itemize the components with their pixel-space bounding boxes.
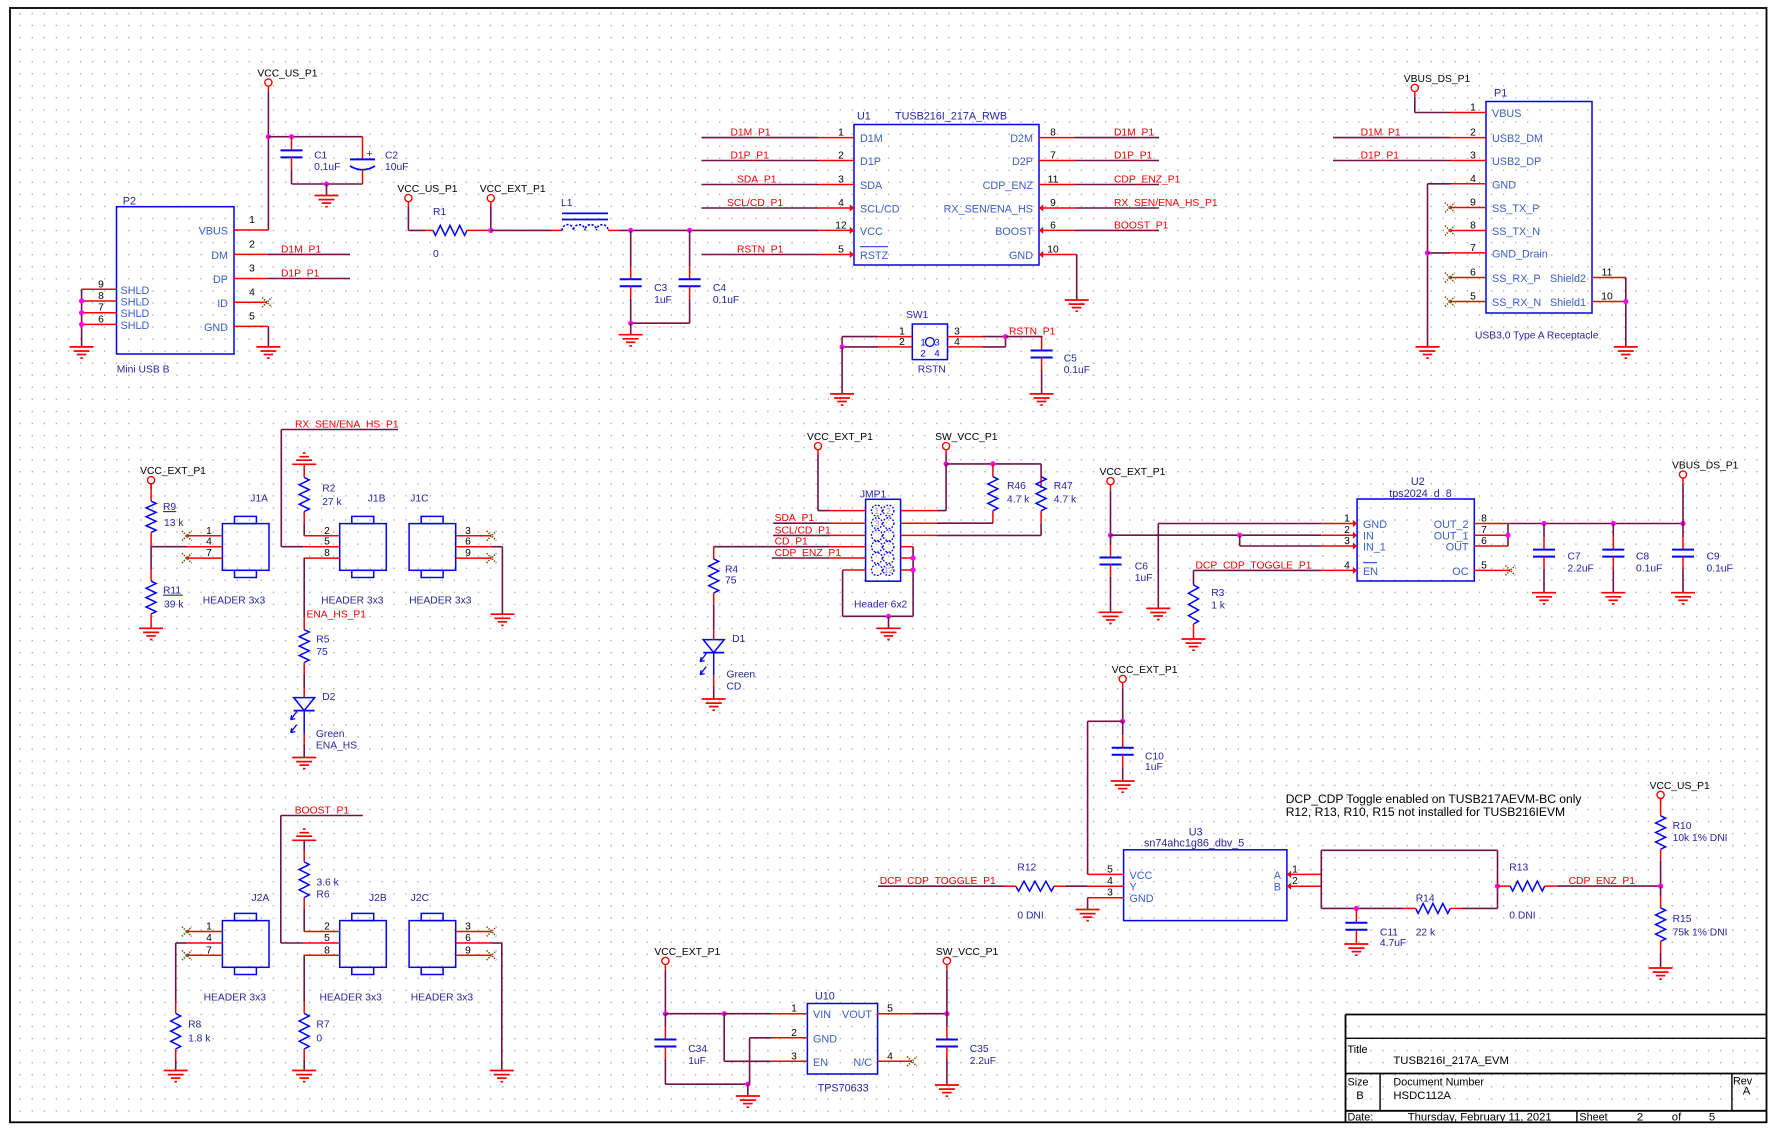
svg-text:SW1: SW1 <box>906 310 929 321</box>
svg-text:VBUS_DS_P1: VBUS_DS_P1 <box>1672 461 1739 472</box>
svg-text:of: of <box>1672 1111 1682 1123</box>
svg-text:VCC_US_P1: VCC_US_P1 <box>257 69 317 80</box>
svg-text:2.2uF: 2.2uF <box>970 1056 996 1067</box>
svg-text:OC: OC <box>1452 566 1468 578</box>
svg-text:22 k: 22 k <box>1416 927 1436 938</box>
svg-text:R4: R4 <box>725 565 738 576</box>
svg-text:0.1uF: 0.1uF <box>713 295 739 306</box>
svg-text:OUT_2: OUT_2 <box>1434 519 1469 531</box>
svg-text:R15: R15 <box>1673 914 1692 925</box>
svg-text:Document Number: Document Number <box>1393 1077 1484 1089</box>
svg-text:C3: C3 <box>654 283 667 294</box>
svg-text:HEADER 3x3: HEADER 3x3 <box>320 992 383 1003</box>
svg-text:D1M: D1M <box>860 133 883 145</box>
svg-text:0.1uF: 0.1uF <box>1636 563 1662 574</box>
svg-text:4: 4 <box>249 287 255 298</box>
svg-text:3.6 k: 3.6 k <box>316 877 339 888</box>
svg-text:ENA_HS_P1: ENA_HS_P1 <box>307 610 367 621</box>
svg-text:5: 5 <box>249 311 255 322</box>
svg-text:TPS70633: TPS70633 <box>818 1082 869 1094</box>
svg-text:GND: GND <box>1009 250 1033 262</box>
svg-text:D1M_P1: D1M_P1 <box>1361 128 1401 139</box>
svg-text:SHLD: SHLD <box>121 285 150 297</box>
svg-text:VCC: VCC <box>1130 870 1153 882</box>
svg-text:27 k: 27 k <box>322 497 342 508</box>
svg-text:2: 2 <box>249 239 255 250</box>
svg-text:JMP1: JMP1 <box>860 489 887 500</box>
svg-text:1uF: 1uF <box>654 295 672 306</box>
svg-text:D2: D2 <box>322 692 335 703</box>
svg-text:SHLD: SHLD <box>121 320 150 332</box>
svg-text:C1: C1 <box>314 151 327 162</box>
svg-text:13 k: 13 k <box>164 518 184 529</box>
svg-text:1.8 k: 1.8 k <box>188 1034 211 1045</box>
svg-text:GND: GND <box>813 1033 837 1045</box>
svg-text:1uF: 1uF <box>688 1056 706 1067</box>
svg-text:RX_SEN/ENA_HS_P1: RX_SEN/ENA_HS_P1 <box>1114 198 1218 209</box>
svg-text:R6: R6 <box>316 890 329 901</box>
svg-text:USB2_DM: USB2_DM <box>1492 133 1543 145</box>
svg-text:10k 1% DNI: 10k 1% DNI <box>1673 833 1728 844</box>
svg-text:DCP_CDP Toggle enabled on TUSB: DCP_CDP Toggle enabled on TUSB217AEVM-BC… <box>1286 792 1583 806</box>
svg-text:VCC_EXT_P1: VCC_EXT_P1 <box>480 184 546 195</box>
svg-text:TUSB216I_217A_EVM: TUSB216I_217A_EVM <box>1393 1055 1509 1067</box>
svg-text:VCC_US_P1: VCC_US_P1 <box>1650 781 1710 792</box>
svg-text:J1C: J1C <box>410 493 429 504</box>
svg-text:N/C: N/C <box>853 1057 872 1069</box>
svg-text:D2P: D2P <box>1012 156 1033 168</box>
svg-text:D1P_P1: D1P_P1 <box>1361 151 1400 162</box>
svg-text:SDA_P1: SDA_P1 <box>775 513 815 524</box>
svg-text:VIN: VIN <box>813 1009 831 1021</box>
svg-text:D1P_P1: D1P_P1 <box>1114 151 1153 162</box>
svg-text:SCL/CD_P1: SCL/CD_P1 <box>727 198 783 209</box>
svg-text:Mini USB B: Mini USB B <box>117 365 170 376</box>
svg-text:Size: Size <box>1348 1077 1369 1089</box>
svg-text:4.7uF: 4.7uF <box>1380 938 1406 949</box>
svg-text:4: 4 <box>934 349 939 360</box>
svg-text:VCC_EXT_P1: VCC_EXT_P1 <box>1100 467 1166 478</box>
svg-text:2.2uF: 2.2uF <box>1568 563 1594 574</box>
svg-text:12: 12 <box>884 565 894 575</box>
svg-text:R13: R13 <box>1509 863 1528 874</box>
svg-text:75k 1% DNI: 75k 1% DNI <box>1673 927 1728 938</box>
svg-text:0.1uF: 0.1uF <box>1707 563 1733 574</box>
svg-text:D1P_P1: D1P_P1 <box>281 269 320 280</box>
svg-text:VOUT: VOUT <box>842 1009 872 1021</box>
svg-text:VCC_EXT_P1: VCC_EXT_P1 <box>807 432 873 443</box>
svg-text:SCL/CD: SCL/CD <box>860 204 900 216</box>
svg-text:D1P_P1: D1P_P1 <box>731 151 770 162</box>
svg-text:Title: Title <box>1348 1044 1368 1056</box>
svg-text:CD_P1: CD_P1 <box>775 537 808 548</box>
svg-text:3: 3 <box>249 264 255 275</box>
svg-text:3: 3 <box>934 338 939 349</box>
svg-text:0: 0 <box>433 249 439 260</box>
svg-text:J1A: J1A <box>250 493 268 504</box>
svg-text:2: 2 <box>1637 1111 1643 1123</box>
svg-text:HEADER 3x3: HEADER 3x3 <box>204 992 267 1003</box>
svg-text:1uF: 1uF <box>1135 573 1153 584</box>
svg-text:USB2_DP: USB2_DP <box>1492 156 1541 168</box>
svg-text:B: B <box>1274 882 1281 894</box>
svg-text:R14: R14 <box>1416 893 1435 904</box>
svg-text:RX_SEN/ENA_HS: RX_SEN/ENA_HS <box>944 204 1033 216</box>
svg-text:CD: CD <box>727 681 742 692</box>
svg-text:C34: C34 <box>688 1044 707 1055</box>
svg-text:BOOST_P1: BOOST_P1 <box>1114 220 1169 231</box>
svg-text:A: A <box>1274 870 1282 882</box>
svg-text:DP: DP <box>213 274 228 286</box>
svg-text:P2: P2 <box>123 196 136 208</box>
svg-text:HEADER 3x3: HEADER 3x3 <box>411 992 474 1003</box>
svg-text:tps2024_d_8: tps2024_d_8 <box>1389 488 1451 500</box>
svg-text:EN: EN <box>1363 566 1378 578</box>
svg-text:HEADER 3x3: HEADER 3x3 <box>203 595 266 606</box>
svg-text:Date:: Date: <box>1348 1111 1374 1123</box>
svg-text:R12: R12 <box>1017 862 1036 873</box>
svg-text:U1: U1 <box>857 111 871 123</box>
svg-text:R10: R10 <box>1673 821 1692 832</box>
svg-text:1: 1 <box>920 338 925 349</box>
svg-text:10uF: 10uF <box>385 162 408 173</box>
svg-text:2: 2 <box>920 349 925 360</box>
svg-text:C5: C5 <box>1064 353 1077 364</box>
svg-text:D1M_P1: D1M_P1 <box>281 244 321 255</box>
svg-text:5: 5 <box>1709 1111 1715 1123</box>
svg-text:R2: R2 <box>322 483 335 494</box>
svg-text:VCC_EXT_P1: VCC_EXT_P1 <box>654 947 720 958</box>
svg-text:RSTZ: RSTZ <box>860 250 889 262</box>
svg-text:D2M: D2M <box>1010 133 1033 145</box>
svg-text:L1: L1 <box>561 198 573 209</box>
svg-text:C7: C7 <box>1568 552 1581 563</box>
svg-text:HSDC112A: HSDC112A <box>1393 1090 1451 1102</box>
svg-text:4.7 k: 4.7 k <box>1007 494 1030 505</box>
svg-text:SHLD: SHLD <box>121 308 150 320</box>
svg-text:Green: Green <box>727 669 756 680</box>
svg-text:+: + <box>367 148 373 160</box>
svg-text:SW_VCC_P1: SW_VCC_P1 <box>936 947 999 958</box>
svg-text:Header 6x2: Header 6x2 <box>854 599 908 610</box>
svg-text:R1: R1 <box>433 207 446 218</box>
svg-text:D1M_P1: D1M_P1 <box>731 128 771 139</box>
svg-text:RSTN: RSTN <box>918 365 946 376</box>
svg-text:GND_Drain: GND_Drain <box>1492 248 1548 260</box>
svg-text:TUSB216I_217A_RWB: TUSB216I_217A_RWB <box>895 111 1007 123</box>
svg-text:VCC_EXT_P1: VCC_EXT_P1 <box>140 466 206 477</box>
svg-text:SS_TX_P: SS_TX_P <box>1492 203 1539 215</box>
svg-text:D1: D1 <box>732 634 745 645</box>
svg-text:VCC_US_P1: VCC_US_P1 <box>397 184 457 195</box>
svg-text:J2C: J2C <box>411 893 430 904</box>
svg-text:C4: C4 <box>713 283 726 294</box>
svg-text:C2: C2 <box>385 151 398 162</box>
svg-text:HEADER 3x3: HEADER 3x3 <box>321 595 384 606</box>
svg-text:75: 75 <box>316 647 328 658</box>
svg-text:GND: GND <box>204 322 228 334</box>
svg-text:CDP_ENZ_P1: CDP_ENZ_P1 <box>1114 175 1181 186</box>
svg-text:B: B <box>1356 1090 1364 1102</box>
svg-text:75: 75 <box>725 575 737 586</box>
svg-text:Shield1: Shield1 <box>1550 297 1586 309</box>
svg-text:1: 1 <box>875 506 880 516</box>
svg-text:U10: U10 <box>815 990 835 1002</box>
svg-text:DM: DM <box>211 250 228 262</box>
svg-text:CDP_ENZ_P1: CDP_ENZ_P1 <box>775 548 842 559</box>
svg-text:OUT: OUT <box>1446 542 1469 554</box>
svg-text:VBUS_DS_P1: VBUS_DS_P1 <box>1404 74 1471 85</box>
svg-text:SS_RX_P: SS_RX_P <box>1492 273 1541 285</box>
svg-text:SHLD: SHLD <box>121 297 150 309</box>
svg-text:ENA_HS: ENA_HS <box>316 741 357 752</box>
svg-text:D1P: D1P <box>860 156 881 168</box>
svg-text:R5: R5 <box>316 635 329 646</box>
svg-text:SDA: SDA <box>860 180 883 192</box>
svg-text:0 DNI: 0 DNI <box>1509 911 1535 922</box>
svg-text:D1M_P1: D1M_P1 <box>1114 128 1154 139</box>
svg-text:2: 2 <box>886 506 891 516</box>
svg-text:VCC_EXT_P1: VCC_EXT_P1 <box>1112 665 1178 676</box>
svg-text:BOOST: BOOST <box>995 226 1033 238</box>
svg-text:Thursday, February 11, 2021: Thursday, February 11, 2021 <box>1408 1111 1552 1123</box>
svg-text:U2: U2 <box>1411 476 1425 488</box>
svg-text:GND: GND <box>1492 179 1516 191</box>
svg-text:GND: GND <box>1130 893 1154 905</box>
svg-text:CDP_ENZ: CDP_ENZ <box>983 180 1034 192</box>
svg-text:SCL/CD_P1: SCL/CD_P1 <box>775 525 831 536</box>
svg-text:A: A <box>1743 1086 1751 1098</box>
svg-text:3: 3 <box>875 518 880 528</box>
svg-text:0.1uF: 0.1uF <box>314 162 340 173</box>
svg-text:Green: Green <box>316 729 345 740</box>
svg-text:J2B: J2B <box>369 893 387 904</box>
svg-text:SW_VCC_P1: SW_VCC_P1 <box>935 432 998 443</box>
svg-text:RSTN_P1: RSTN_P1 <box>737 245 784 256</box>
svg-text:11: 11 <box>1602 268 1613 279</box>
svg-text:R46: R46 <box>1007 481 1026 492</box>
svg-text:IN_1: IN_1 <box>1363 542 1386 554</box>
svg-text:VBUS: VBUS <box>199 226 228 238</box>
svg-text:1 k: 1 k <box>1211 601 1226 612</box>
svg-text:P1: P1 <box>1494 88 1507 100</box>
svg-text:4.7 k: 4.7 k <box>1054 494 1077 505</box>
svg-text:SS_RX_N: SS_RX_N <box>1492 297 1541 309</box>
svg-text:HEADER 3x3: HEADER 3x3 <box>409 595 472 606</box>
svg-text:SS_TX_N: SS_TX_N <box>1492 226 1540 238</box>
svg-text:R7: R7 <box>316 1020 329 1031</box>
svg-text:VCC: VCC <box>860 226 883 238</box>
svg-text:Sheet: Sheet <box>1579 1111 1607 1123</box>
svg-text:1: 1 <box>249 215 255 226</box>
svg-text:0: 0 <box>316 1034 322 1045</box>
svg-text:GND: GND <box>1363 519 1387 531</box>
svg-text:USB3.0 Type A Receptacle: USB3.0 Type A Receptacle <box>1475 330 1599 341</box>
svg-text:SDA_P1: SDA_P1 <box>737 175 777 186</box>
svg-text:CDP_ENZ_P1: CDP_ENZ_P1 <box>1569 876 1636 887</box>
svg-text:sn74ahc1g86_dbv_5: sn74ahc1g86_dbv_5 <box>1144 838 1244 850</box>
svg-text:C9: C9 <box>1707 552 1720 563</box>
svg-text:EN: EN <box>813 1057 828 1069</box>
svg-text:ID: ID <box>217 298 228 310</box>
svg-text:J1B: J1B <box>368 493 386 504</box>
svg-text:R3: R3 <box>1211 588 1224 599</box>
svg-text:Shield2: Shield2 <box>1550 273 1586 285</box>
svg-text:0.1uF: 0.1uF <box>1064 365 1090 376</box>
svg-text:R8: R8 <box>188 1020 201 1031</box>
svg-text:Y: Y <box>1130 882 1137 894</box>
svg-text:J2A: J2A <box>252 893 270 904</box>
svg-text:C6: C6 <box>1135 561 1148 572</box>
svg-text:R12, R13, R10, R15 not install: R12, R13, R10, R15 not installed for TUS… <box>1286 805 1565 819</box>
svg-text:C35: C35 <box>970 1044 989 1055</box>
svg-text:39 k: 39 k <box>164 600 184 611</box>
svg-text:10: 10 <box>1601 292 1613 303</box>
svg-text:1uF: 1uF <box>1145 762 1163 773</box>
svg-text:R47: R47 <box>1054 481 1073 492</box>
svg-text:0 DNI: 0 DNI <box>1017 910 1043 921</box>
svg-text:C8: C8 <box>1636 552 1649 563</box>
svg-text:VBUS: VBUS <box>1492 108 1521 120</box>
